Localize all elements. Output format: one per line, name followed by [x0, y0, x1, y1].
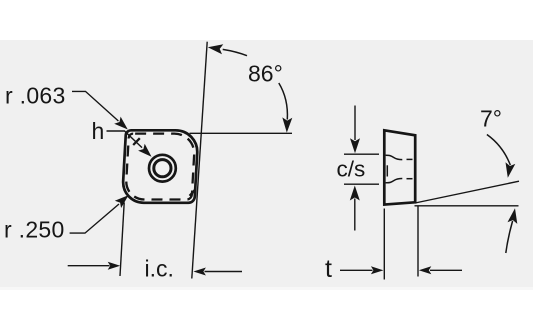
7 deg horizontal reference line	[415, 205, 519, 207]
c/s bottom dimension arrow	[354, 199, 356, 231]
c/s bottom extension tick	[344, 183, 379, 185]
side view outline	[384, 130, 415, 204]
hole countersink inner circle	[154, 160, 171, 177]
svg-text:86°: 86°	[248, 61, 283, 87]
hole hidden dash top	[407, 158, 413, 160]
svg-text:7°: 7°	[480, 106, 502, 132]
dashed outline TL corner dash	[133, 138, 140, 145]
86 deg upper arc arrow	[223, 49, 247, 55]
svg-text:r .063: r .063	[5, 82, 66, 108]
hole outer circle	[149, 155, 176, 182]
t left dimension arrow	[340, 269, 373, 271]
7 deg lower arc arrow	[506, 221, 513, 253]
7 deg upper arc arrow	[487, 135, 510, 166]
86 deg lower arc arrow	[279, 83, 288, 120]
countersink funnel top profile	[386, 155, 403, 159]
t right extension line	[417, 206, 419, 277]
i.c. left dimension arrow	[68, 265, 110, 267]
i.c. right dimension arrow	[205, 271, 243, 273]
hole hidden dash bottom	[407, 178, 413, 180]
c/s top dimension arrow	[354, 106, 356, 141]
7 deg slanted clearance line	[415, 181, 519, 203]
leader r .250	[70, 204, 119, 233]
extension line right (86 deg / i.c.)	[192, 42, 207, 279]
svg-text:t: t	[325, 255, 332, 283]
t right dimension arrow	[430, 269, 462, 271]
svg-text:r .250: r .250	[4, 217, 65, 243]
svg-text:c/s: c/s	[337, 157, 366, 182]
leader h	[107, 131, 143, 148]
extension line left (i.c.)	[120, 203, 124, 277]
insert top-view solid outline	[122, 130, 199, 203]
insert bottom periphery (hidden) dashed outline	[125, 134, 195, 200]
horizontal reference line (86 deg)	[190, 132, 293, 134]
c/s top extension tick	[344, 153, 379, 155]
gray drawing background band	[0, 40, 533, 287]
dashed outline BR corner dash	[190, 190, 195, 196]
svg-text:h: h	[92, 118, 105, 144]
leader r .063	[72, 91, 118, 121]
t left extension line	[383, 209, 385, 280]
countersink funnel bottom profile	[386, 179, 403, 183]
svg-text:i.c.: i.c.	[145, 255, 174, 281]
hole hidden dash vertical	[386, 165, 388, 176]
